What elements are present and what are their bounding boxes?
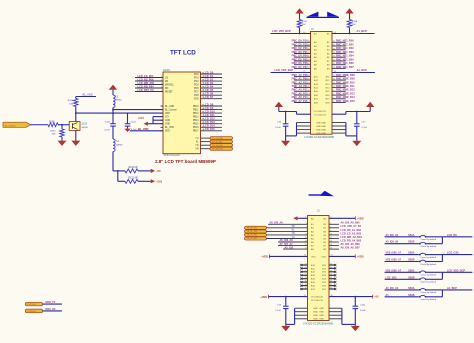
svg-text:VDD: VDD (165, 131, 170, 133)
wire GND bus right (345, 123, 347, 136)
svg-text:SB4B: SB4B (408, 294, 415, 297)
svg-text:PB13: PB13 (193, 117, 199, 119)
wire +VDD row right (329, 255, 355, 257)
net flag TS_YU (210, 137, 233, 140)
svg-text:PD3: PD3 (194, 77, 199, 79)
wire LCD_VD5_BCP mid (271, 72, 311, 74)
svg-text:VDD: VDD (165, 113, 170, 115)
svg-text:FMC_NWE_B13: FMC_NWE_B13 (336, 93, 355, 96)
connector J2 NC pin row 4 (301, 274, 308, 276)
logo (307, 12, 319, 17)
IC U100 left pin RS (135, 80, 163, 82)
connector J1 pin row L3 (294, 45, 311, 47)
svg-text:LCD_D1: LCD_D1 (204, 75, 214, 78)
svg-text:GND: GND (165, 124, 170, 126)
ground (351, 326, 360, 331)
wire out LCD_VD5_BCP (442, 271, 472, 273)
svg-text:R109: R109 (68, 100, 74, 102)
connector J1 GND pin row 2 (297, 125, 311, 127)
resistor R110 10K pulldown (61, 125, 63, 129)
svg-text:PD5: PD5 (194, 85, 199, 87)
svg-text:GND: GND (321, 130, 326, 132)
svg-text:+VDD: +VDD (260, 296, 267, 299)
wire (278, 245, 308, 247)
net label BL_VDD wire (130, 130, 163, 132)
svg-text:TS_YU_IN1: TS_YU_IN1 (247, 238, 259, 240)
svg-text:C19a: C19a (360, 305, 366, 307)
svg-text:TS_XL_IN1: TS_XL_IN1 (247, 231, 258, 233)
svg-text:BL_VDD: BL_VDD (83, 92, 93, 96)
solder bridge SB3A (385, 271, 419, 273)
svg-text:Close by default: Close by default (421, 274, 437, 277)
connector J1 pin row R4 (332, 49, 346, 51)
connector J1 pin row R12 (332, 79, 346, 81)
power VCC rail left (275, 102, 283, 107)
wire (299, 28, 301, 34)
svg-text:GND: GND (313, 319, 318, 321)
svg-text:LCD_D13: LCD_D13 (204, 121, 216, 124)
wire out A1_BCP (442, 289, 472, 291)
svg-text:+VDD: +VDD (357, 217, 364, 220)
net flag TS_XR (210, 147, 233, 150)
svg-text:SB1B: SB1B (408, 241, 415, 244)
connector J2 NC pin row 7 (301, 285, 308, 287)
svg-text:PB11: PB11 (193, 110, 199, 112)
resistor R120 (125, 169, 138, 173)
svg-text:0.1uF: 0.1uF (275, 127, 281, 129)
svg-text:LCD_RD_A4_B05: LCD_RD_A4_B05 (341, 239, 362, 242)
connector J2 pin row R5 (329, 238, 339, 240)
svg-text:PD4: PD4 (194, 81, 199, 83)
svg-text:VD5_IO85_A7: VD5_IO85_A7 (386, 252, 402, 255)
wire (138, 180, 151, 182)
wire A1_BCP mid (332, 72, 375, 74)
svg-text:GND: GND (319, 308, 324, 310)
svg-text:LCD_VD5_BCP: LCD_VD5_BCP (447, 269, 465, 272)
svg-text:GND: GND (319, 315, 324, 317)
svg-text:MH4D: MH4D (116, 100, 123, 102)
connector J1 pin row L11 (294, 75, 311, 77)
connector J1 pin row L5 (294, 53, 311, 55)
svg-text:U100: U100 (163, 68, 170, 72)
connector J2 NC pin row 2 (301, 267, 308, 269)
ground (281, 326, 290, 331)
wire LCD_VD5_BCP (271, 33, 311, 35)
resistor R10B 10K (347, 20, 351, 28)
capacitor C100 (110, 123, 116, 125)
connector J1 pin row R3 (332, 45, 346, 47)
wire (349, 28, 351, 34)
connector J1 pin row R17 (332, 98, 346, 100)
connector J1 pin row R8 (332, 64, 346, 66)
resistor R10C 10K (297, 20, 301, 28)
svg-text:GND: GND (319, 319, 324, 321)
svg-text:HY32D-SC1R2906A06B: HY32D-SC1R2906A06B (304, 322, 333, 326)
capacitor C16 0.1uF (285, 112, 287, 124)
svg-text:YD: YD (292, 233, 296, 235)
wire emitter to ground (75, 131, 77, 141)
wire node A (112, 108, 114, 124)
net flag TS_YD (210, 144, 233, 147)
wire VCC row right (329, 296, 373, 298)
svg-text:LCD_VD5: LCD_VD5 (386, 276, 398, 279)
svg-text:C101: C101 (131, 121, 137, 123)
wire A0_IO0_A0 (268, 223, 308, 225)
wire (427, 296, 443, 298)
svg-text:P1.RX.D0: P1.RX.D0 (27, 311, 37, 313)
svg-text:YU: YU (195, 138, 199, 140)
connector J2 NC pin row 1 (301, 264, 308, 266)
svg-text:GND: GND (313, 308, 318, 310)
svg-text:VCC40CCB: VCC40CCB (311, 300, 323, 302)
IC U100 right pin PB12 (201, 112, 223, 114)
svg-text:RESET: RESET (165, 91, 173, 93)
wire join (441, 255, 443, 262)
svg-text:FMC_NE1_B00: FMC_NE1_B00 (336, 40, 354, 43)
svg-text:LCD_VD5_BCP: LCD_VD5_BCP (272, 29, 291, 33)
svg-text:+VCI: +VCI (138, 116, 145, 120)
net flag TS_YU (245, 237, 267, 240)
svg-text:2.8" LCD TFT board MB909P: 2.8" LCD TFT board MB909P (155, 159, 216, 164)
svg-text:FMC_NWE_B09: FMC_NWE_B09 (336, 78, 355, 81)
svg-text:GND: GND (321, 122, 326, 124)
svg-text:FMC_A0_P08: FMC_A0_P08 (292, 74, 308, 77)
connector J1 body (311, 32, 333, 135)
connector J2 GND pin row 1 (295, 307, 308, 309)
svg-text:FMC_A4_P12: FMC_A4_P12 (292, 89, 308, 92)
ground (71, 141, 80, 146)
wire +VDD top right (329, 217, 355, 219)
wire (278, 241, 308, 243)
svg-text:SB4A: SB4A (408, 287, 415, 290)
resistor R121 (125, 179, 138, 183)
connector J2 pin row R2 (329, 227, 339, 229)
net flag TS_XL (245, 230, 267, 233)
wire (267, 234, 308, 236)
resistor R108 1K (48, 123, 58, 127)
connector J2 pin row R3 (329, 230, 339, 232)
svg-text:VCC40CCB: VCC40CCB (314, 114, 326, 116)
power VCC rail right (366, 102, 374, 107)
IC U100 right pin PB16 (201, 126, 223, 128)
IC U100 right pin PD8 (201, 94, 223, 96)
svg-text:FMC_D4_P04: FMC_D4_P04 (292, 55, 308, 58)
wire (427, 261, 443, 263)
svg-text:R120 0R: R120 0R (129, 167, 138, 169)
svg-text:LCD_RST_P3: LCD_RST_P3 (138, 89, 155, 92)
svg-text:HY32D-SC1R2906A06B: HY32D-SC1R2906A06B (305, 135, 334, 139)
svg-text:0.1uF: 0.1uF (362, 127, 368, 129)
connector J2 NC pin row 5 (301, 278, 308, 280)
svg-text:+VDD: +VDD (357, 256, 364, 259)
wire base to Q100 (58, 124, 69, 126)
svg-text:PD7: PD7 (194, 92, 199, 94)
svg-text:TS_YD_IN1: TS_YD_IN1 (247, 235, 259, 237)
net flag TS_YD (245, 233, 267, 236)
wire (427, 278, 443, 280)
svg-text:FMC_NE1_B04: FMC_NE1_B04 (336, 55, 354, 58)
wire (427, 254, 443, 256)
connector J1 pin row L4 (294, 49, 311, 51)
svg-text:SPI6 connector: SPI6 connector (164, 154, 181, 157)
svg-text:A0_IO0_A0: A0_IO0_A0 (386, 287, 399, 290)
wire out LCD_CS0 (442, 254, 472, 256)
solder bridge SB2B (385, 261, 419, 263)
svg-text:Q100: Q100 (82, 124, 88, 126)
svg-text:PD8: PD8 (194, 95, 199, 97)
transistor Q100 (69, 122, 80, 131)
svg-text:VDD: VDD (311, 256, 316, 258)
svg-text:10K: 10K (352, 24, 356, 26)
svg-text:R110: R110 (50, 131, 56, 133)
connector J2 pin row R4 (329, 234, 339, 236)
connector J1 pin row L14 (294, 87, 311, 89)
IC U100 right pin PB15 (201, 123, 223, 125)
svg-text:A5_IO5: A5_IO5 (285, 246, 294, 249)
wire branch 2 (117, 171, 119, 181)
svg-text:FMC_D6_P06: FMC_D6_P06 (292, 62, 308, 65)
IC U100 touch pin YU (201, 137, 211, 139)
svg-text:VDD: VDD (321, 256, 326, 258)
svg-text:A6_IO6_A6_B07: A6_IO6_A6_B07 (341, 247, 361, 250)
wire (427, 236, 443, 238)
IC U100 right pin PD5 (201, 84, 223, 86)
svg-text:0.1uF: 0.1uF (104, 129, 110, 131)
logo 2 (309, 194, 332, 195)
svg-text:0.1uF: 0.1uF (275, 310, 281, 312)
connector J2 body (308, 216, 330, 321)
svg-text:TS_XR_IN1: TS_XR_IN1 (212, 148, 224, 150)
IC U100 left pin RESET (135, 91, 163, 93)
IC U100 body (163, 72, 201, 154)
svg-text:PB17: PB17 (193, 131, 199, 133)
IC U100 touch pin XR (201, 148, 211, 150)
svg-text:YD: YD (195, 145, 199, 147)
svg-text:FMC_NWE_B12: FMC_NWE_B12 (336, 89, 355, 92)
resistor R109 10K (74, 99, 78, 107)
wire join (441, 272, 443, 279)
IC U100 left pin WR/SCL (135, 84, 163, 86)
svg-text:VCI: VCI (165, 117, 169, 119)
IC U100 right pin PD6 (201, 87, 223, 89)
connector J2 NC pin row 3 (301, 271, 308, 273)
svg-text:SB3B: SB3B (408, 276, 415, 279)
capacitor C19 0.1uF (354, 297, 356, 307)
svg-text:BL_Control: BL_Control (165, 109, 177, 112)
wire branch (113, 170, 125, 172)
svg-text:LCD_D4: LCD_D4 (204, 86, 214, 89)
net flag DBG_TX (25, 302, 42, 306)
svg-text:R10B: R10B (352, 21, 358, 23)
IC U100 right pin PD2 (201, 73, 223, 75)
IC U100 touch pin XL (201, 141, 211, 143)
connector J1 pin row R14 (332, 87, 346, 89)
svg-text:FMC_A6_P14: FMC_A6_P14 (292, 96, 308, 99)
connector J1 pin row R7 (332, 60, 346, 62)
svg-text:LCD_D7: LCD_D7 (204, 96, 214, 99)
svg-text:FMC_NE1_B01: FMC_NE1_B01 (336, 43, 354, 46)
wire VCI bracket (152, 117, 154, 124)
svg-text:PB14: PB14 (193, 120, 199, 122)
IC U100 right pin PB13 (201, 116, 223, 118)
svg-text:C100: C100 (105, 121, 111, 123)
connector J1 GND pin row 4 (297, 132, 311, 134)
svg-text:BL_GND: BL_GND (165, 106, 175, 108)
svg-text:+5V: +5V (374, 296, 379, 299)
svg-text:PD2: PD2 (194, 74, 199, 76)
svg-text:FMC_A7_P15: FMC_A7_P15 (292, 100, 308, 103)
wire collector (75, 107, 77, 122)
ground (58, 141, 67, 146)
svg-text:+3V3: +3V3 (156, 180, 163, 183)
connector J2 GND pin row 2 (295, 311, 308, 313)
svg-text:FMC_NWE_B08: FMC_NWE_B08 (336, 74, 355, 77)
connector J2 pin row R8 (329, 248, 339, 250)
solder bridge SB1B (385, 243, 419, 245)
svg-text:TS_XL_IN1: TS_XL_IN1 (212, 141, 223, 143)
svg-text:BL_VDD: BL_VDD (165, 127, 174, 129)
connector J2 NC pin row 8 (301, 288, 308, 290)
svg-text:FMC_NWE_B15: FMC_NWE_B15 (336, 100, 355, 103)
power +3V3 (151, 179, 155, 183)
svg-text:FMC_NE1_B07: FMC_NE1_B07 (336, 66, 354, 69)
svg-text:A1_BCP: A1_BCP (357, 68, 368, 72)
svg-text:GND: GND (313, 312, 318, 314)
svg-text:LCD_B5: LCD_B5 (447, 234, 457, 237)
svg-text:WR/SCL: WR/SCL (165, 84, 175, 86)
wire (427, 271, 443, 273)
svg-text:FMC_NWE_B11: FMC_NWE_B11 (336, 85, 355, 88)
svg-text:+VDD: +VDD (261, 256, 268, 259)
svg-text:10K: 10K (69, 103, 73, 105)
svg-text:FMC_NE1_B02: FMC_NE1_B02 (336, 47, 354, 50)
svg-text:RD: RD (165, 88, 169, 90)
solder bridge SB4B (385, 296, 419, 298)
connector J1 pin row L9 (294, 67, 311, 69)
svg-text:FMC_D5_P05: FMC_D5_P05 (292, 58, 308, 61)
svg-text:Close by default: Close by default (421, 245, 437, 248)
wire (112, 126, 114, 139)
solder bridge SB1A (385, 236, 419, 238)
svg-text:LCD_D15: LCD_D15 (204, 128, 216, 131)
wire (267, 230, 308, 232)
svg-text:Open by default: Open by default (421, 281, 437, 284)
wire (427, 243, 443, 245)
svg-text:LCD_D8: LCD_D8 (204, 103, 214, 106)
connector J1 pin row R13 (332, 83, 346, 85)
wire to L3 (112, 90, 114, 95)
svg-text:GND: GND (313, 315, 318, 317)
connector J1 GND pin row 1 (297, 122, 311, 124)
IC U100 left pin CS (135, 77, 163, 79)
svg-text:10K: 10K (52, 134, 56, 136)
svg-text:FMC_A1_P09: FMC_A1_P09 (292, 78, 308, 81)
svg-text:FMC_D7_P07: FMC_D7_P07 (292, 66, 308, 69)
svg-text:R108: R108 (49, 121, 55, 123)
svg-text:FMC_A5_P13: FMC_A5_P13 (292, 93, 308, 96)
svg-text:Open by default: Open by default (421, 238, 437, 241)
svg-text:SB2B: SB2B (408, 259, 415, 262)
connector J1 pin row L2 (294, 41, 311, 43)
svg-text:XR: XR (292, 226, 296, 228)
svg-text:LCD_VD5_BCP: LCD_VD5_BCP (275, 68, 294, 72)
inductor L4 (113, 139, 115, 152)
svg-text:MH4D: MH4D (117, 144, 124, 146)
connector J2 NC pin row 6 (301, 281, 308, 283)
connector J1 pin row R16 (332, 94, 346, 96)
net flag TS_XR (245, 226, 267, 229)
svg-text:A1_BCP: A1_BCP (357, 29, 368, 33)
svg-text:DBG_RX: DBG_RX (46, 308, 56, 311)
svg-text:TS_XR_IN1: TS_XR_IN1 (247, 227, 259, 229)
connector J1 pin row R2 (332, 41, 346, 43)
svg-text:FMC_D1_P15: FMC_D1_P15 (292, 43, 308, 46)
svg-text:VCC40CCB: VCC40CCB (314, 111, 326, 113)
svg-text:FMC_A3_P11: FMC_A3_P11 (292, 85, 308, 88)
ground (352, 141, 361, 146)
svg-text:DBG_TX: DBG_TX (46, 301, 56, 304)
svg-text:SB3A: SB3A (408, 269, 415, 272)
svg-text:BL_Control: BL_Control (5, 124, 16, 127)
power +5V arrow (109, 85, 117, 90)
wire join (441, 237, 443, 244)
connector J1 pin row R15 (332, 90, 346, 92)
wire down (112, 152, 114, 171)
wire backlight node (76, 112, 163, 114)
svg-text:+5V: +5V (156, 170, 161, 173)
svg-text:A0_IO0_A0: A0_IO0_A0 (386, 234, 399, 237)
wire BL_VDD stub (75, 97, 77, 99)
connector J1 pin row R11 (332, 75, 346, 77)
connector J1 pin row R5 (332, 53, 346, 55)
connector J1 GND pin row 3 (297, 129, 311, 131)
svg-text:LCD_CS0: LCD_CS0 (447, 252, 459, 255)
wire (267, 238, 308, 240)
connector J1 pin row L18 (294, 102, 311, 104)
svg-text:Close by default: Close by default (421, 263, 437, 266)
svg-text:GND: GND (319, 312, 324, 314)
solder bridge SB3B (385, 278, 419, 280)
svg-text:S8050: S8050 (82, 127, 89, 129)
svg-text:SB2A: SB2A (408, 252, 415, 255)
capacitor C101 (127, 113, 129, 123)
wire out LCD_B5 (442, 236, 472, 238)
connector J1 pin row R6 (332, 56, 346, 58)
power port left top (293, 216, 297, 220)
wire (267, 227, 308, 229)
svg-text:LCD_D11: LCD_D11 (204, 114, 216, 117)
IC U100 right pin PB14 (201, 119, 223, 121)
svg-text:PB16: PB16 (193, 127, 199, 129)
svg-text:VD5_IO85_A7: VD5_IO85_A7 (386, 269, 402, 272)
wire GND bus right (341, 308, 343, 324)
power +5V (151, 169, 155, 173)
connector J1 pin row L6 (294, 56, 311, 58)
connector J1 pin row L16 (294, 94, 311, 96)
connector J1 pin row L15 (294, 90, 311, 92)
net flag BL_Control (3, 122, 31, 127)
svg-text:TS_YU_IN1: TS_YU_IN1 (212, 138, 224, 140)
inductor L3 (113, 95, 115, 108)
svg-text:PB15: PB15 (193, 124, 199, 126)
wire (427, 289, 443, 291)
connector J1 pin row L17 (294, 98, 311, 100)
svg-text:A1_BCP: A1_BCP (447, 287, 457, 290)
svg-text:FMC_NE1_B06: FMC_NE1_B06 (336, 62, 354, 65)
IC U100 touch pin YD (201, 144, 211, 146)
svg-text:RS: RS (165, 81, 169, 83)
svg-text:GND: GND (165, 120, 170, 122)
